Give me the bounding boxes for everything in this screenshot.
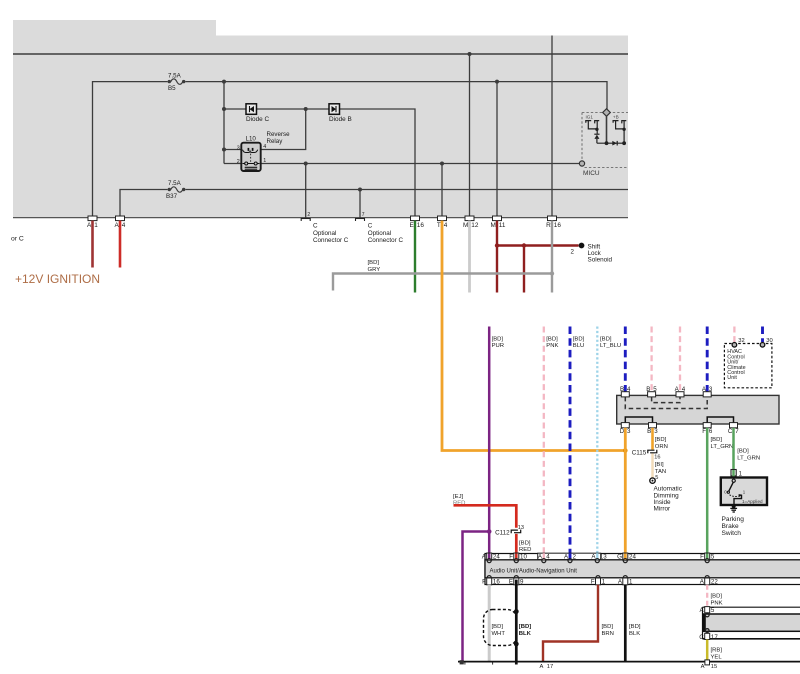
svg-text:1: 1 — [263, 158, 266, 164]
connector C112 — [511, 530, 521, 534]
svg-text:7.5A: 7.5A — [168, 72, 182, 79]
svg-text:6: 6 — [709, 428, 713, 435]
audio unit outer box — [485, 554, 800, 585]
svg-text:24: 24 — [493, 554, 500, 561]
pin F5 — [700, 553, 715, 561]
svg-text:Switch: Switch — [722, 530, 742, 537]
svg-text:15: 15 — [711, 664, 717, 670]
wire purple branch to bottom unit — [463, 532, 490, 662]
MICU internal +B driver — [613, 114, 626, 143]
svg-text:[BD]: [BD] — [711, 437, 723, 443]
svg-text:Audio Unit/Audio-Navigation Un: Audio Unit/Audio-Navigation Unit — [490, 569, 578, 575]
svg-text:F: F — [509, 554, 513, 561]
svg-text:5: 5 — [711, 554, 715, 561]
wire blue HVAC 30 — [761, 327, 764, 343]
svg-text:+12V IGNITION: +12V IGNITION — [15, 272, 100, 286]
svg-text:7: 7 — [362, 212, 365, 218]
svg-text:B: B — [646, 386, 650, 393]
wire M12 drop — [469, 54, 471, 218]
pin B4 — [620, 386, 631, 397]
svg-text:Connector C: Connector C — [368, 237, 404, 244]
svg-text:YEL: YEL — [711, 655, 723, 661]
svg-text:C112: C112 — [495, 529, 510, 536]
svg-text:F: F — [482, 579, 486, 586]
bottom unit pins — [460, 660, 718, 670]
node orange junction D3 — [623, 448, 628, 453]
svg-text:2: 2 — [573, 554, 577, 561]
svg-text:4: 4 — [546, 554, 550, 561]
svg-text:ORN: ORN — [655, 444, 668, 450]
svg-text:[BD]: [BD] — [519, 624, 531, 630]
svg-text:3: 3 — [654, 428, 658, 435]
pin C7 — [728, 423, 739, 435]
wire pink A22 — [706, 585, 708, 607]
node shield bottom — [514, 642, 519, 647]
pin A24 — [482, 553, 501, 561]
wire green F6 to F5 — [706, 428, 709, 554]
svg-text:[EJ]: [EJ] — [453, 494, 464, 500]
svg-text:12: 12 — [471, 222, 479, 229]
svg-text:LT_BLU: LT_BLU — [600, 343, 621, 349]
wire red A1 — [91, 221, 94, 268]
node GRY junction — [550, 271, 554, 275]
wire top bus — [13, 53, 628, 55]
svg-text:1: 1 — [94, 222, 98, 229]
svg-text:16: 16 — [654, 455, 660, 461]
pin A5 — [700, 607, 715, 615]
svg-text:GRY: GRY — [368, 267, 381, 273]
svg-text:[BD]: [BD] — [737, 449, 749, 455]
wire to optional connector 7 — [359, 190, 361, 219]
wire R16 drop — [551, 36, 553, 218]
pin A13 audio — [591, 554, 607, 561]
fuse B37 — [168, 187, 186, 192]
svg-text:E: E — [410, 222, 414, 229]
node relay pin3 — [222, 148, 226, 152]
wire relay pin4 riser — [262, 109, 306, 150]
node mirror ring terminal — [650, 478, 655, 483]
jumper dashed B5-A4 — [652, 397, 680, 403]
wire tan to mirror — [651, 454, 654, 478]
svg-text:Connector C: Connector C — [313, 237, 349, 244]
ground parking brake — [730, 504, 737, 512]
pin E9 — [509, 578, 524, 586]
svg-text:PUR: PUR — [492, 343, 504, 349]
pin M12 — [463, 216, 479, 229]
link F6-C7 — [707, 417, 733, 424]
svg-text:G: G — [617, 554, 622, 561]
pin F1 — [591, 578, 606, 586]
wire pink A4 — [679, 327, 681, 393]
svg-text:M: M — [490, 222, 495, 229]
wire orange B3 — [651, 428, 654, 450]
svg-text:32: 32 — [738, 338, 744, 344]
audio top pin circles — [487, 559, 709, 563]
relay box unit (option jumper block) — [617, 395, 779, 424]
link D3-B3 — [625, 417, 652, 424]
jumper dashed B4-A3 — [625, 397, 707, 409]
svg-text:C: C — [368, 223, 373, 230]
svg-text:24: 24 — [629, 554, 636, 561]
wire to pin T4 — [441, 164, 443, 218]
svg-text:1: 1 — [602, 579, 606, 586]
svg-text:Unit: Unit — [727, 375, 737, 381]
svg-text:[BI]: [BI] — [655, 462, 664, 468]
svg-text:M: M — [463, 222, 468, 229]
wire darkred M11 — [496, 221, 498, 293]
svg-text:B37: B37 — [166, 193, 178, 200]
svg-text:+B: +B — [613, 114, 619, 119]
node shift lock branch — [522, 243, 526, 247]
pin A4 upper — [675, 386, 686, 397]
svg-text:BRN: BRN — [602, 631, 614, 637]
HVAC control unit dashed box — [724, 338, 772, 388]
wire green C7 to parking brake — [732, 428, 735, 470]
wire orange D3 to G24 — [624, 428, 627, 554]
bottom unit edge — [458, 661, 800, 663]
audio bottom pin circles — [487, 576, 709, 580]
svg-text:4: 4 — [444, 222, 448, 229]
svg-text:A: A — [701, 664, 705, 670]
svg-text:A: A — [540, 664, 544, 670]
pin A1 audio — [618, 578, 633, 586]
fuse B5 — [168, 79, 186, 84]
svg-text:5: 5 — [711, 607, 715, 614]
wire to optional connector 2 — [305, 164, 307, 219]
wire brown F1 — [543, 585, 598, 662]
wire B5 line to MICU diamond — [186, 82, 608, 109]
svg-text:[BD]: [BD] — [655, 437, 667, 443]
svg-text:B: B — [620, 386, 624, 393]
pin F16 — [482, 578, 500, 586]
node pin1/optional connector 2 — [304, 162, 308, 166]
pin R16 — [546, 216, 561, 229]
svg-text:Reverse: Reverse — [267, 131, 291, 138]
pin A1 — [87, 216, 98, 229]
svg-text:[BD]: [BD] — [546, 337, 558, 343]
svg-text:2: 2 — [571, 249, 575, 256]
svg-text:F: F — [591, 579, 595, 586]
pin T4 — [437, 216, 448, 229]
node B5/x224 — [222, 80, 226, 84]
wire darkred branch drop — [523, 246, 525, 293]
optional connector 7 terminal fork — [355, 219, 365, 222]
diode C — [246, 104, 269, 123]
MICU dashed box — [582, 113, 628, 178]
wire green E16 — [414, 221, 416, 293]
relay L10 reverse relay — [237, 131, 290, 171]
wire purple PUR — [488, 327, 491, 554]
svg-text:22: 22 — [711, 579, 718, 586]
svg-text:3: 3 — [627, 428, 631, 435]
pin B3 — [647, 423, 658, 435]
svg-text:16: 16 — [417, 222, 425, 229]
svg-text:4: 4 — [122, 222, 126, 229]
wire yellow C17 — [706, 640, 709, 662]
pin F10 — [509, 553, 527, 561]
pin A2 audio — [564, 554, 576, 561]
node pin1/T4 — [440, 162, 444, 166]
svg-text:[BD]: [BD] — [492, 624, 504, 630]
pin A22 — [700, 578, 719, 586]
right sub unit outer lines — [703, 606, 800, 608]
svg-text:2: 2 — [307, 212, 310, 218]
diode B — [329, 104, 352, 123]
pin 1 parking brake switch — [731, 470, 736, 476]
svg-text:Mirror: Mirror — [654, 506, 672, 513]
svg-text:30: 30 — [766, 338, 772, 344]
pin A4 audio — [538, 554, 550, 561]
parking brake switch — [721, 478, 767, 506]
svg-text:Diode C: Diode C — [246, 116, 269, 123]
wire white M12 — [468, 221, 471, 293]
svg-text:Solenoid: Solenoid — [588, 257, 613, 264]
svg-text:LT_GRN: LT_GRN — [711, 444, 734, 450]
svg-text:Parking: Parking — [722, 516, 745, 523]
svg-text:[BD]: [BD] — [519, 541, 531, 547]
wire pink PNK — [543, 327, 545, 554]
svg-text:RED: RED — [519, 547, 531, 553]
pin A4 — [115, 216, 126, 229]
wire gray GRY branch — [333, 274, 552, 291]
node purple branch — [487, 529, 492, 534]
svg-text:[BD]: [BD] — [602, 624, 614, 630]
node B5/M11 — [495, 80, 499, 84]
svg-text:[BD]: [BD] — [629, 624, 641, 630]
svg-text:[BD]: [BD] — [573, 337, 585, 343]
svg-text:PNK: PNK — [546, 343, 558, 349]
svg-text:PNK: PNK — [711, 601, 723, 607]
svg-text:BLK: BLK — [629, 631, 640, 637]
svg-text:C: C — [728, 428, 733, 435]
svg-text:BLK: BLK — [519, 631, 532, 637]
pin C17 — [699, 633, 718, 641]
svg-text:F: F — [702, 428, 706, 435]
wire diamond to MICU bus — [606, 116, 608, 143]
svg-text:[RB]: [RB] — [711, 648, 723, 654]
MICU internal bus with diode — [597, 141, 626, 146]
wire fuse B37 feed pin A4 — [120, 190, 168, 218]
wire light blue LT_BLU — [596, 327, 598, 554]
svg-text:Diode B: Diode B — [329, 116, 352, 123]
node MICU edge connector circle — [579, 161, 584, 166]
svg-text:7: 7 — [735, 428, 739, 435]
wire pink HVAC 32 — [733, 327, 735, 343]
pin F6 — [702, 423, 713, 435]
svg-text:L10: L10 — [246, 135, 257, 142]
wire blue B4 — [624, 327, 627, 393]
wire black E9 — [515, 580, 518, 665]
svg-text:T: T — [437, 222, 441, 229]
svg-text:WHT: WHT — [492, 631, 506, 637]
svg-text:C: C — [313, 223, 318, 230]
wire blue BLU — [569, 327, 572, 554]
right sub unit gray bar — [704, 614, 800, 631]
wire white F16 — [488, 585, 491, 662]
svg-text:[BD]: [BD] — [368, 260, 380, 266]
svg-text:F: F — [700, 554, 704, 561]
svg-text:C: C — [699, 634, 704, 641]
pin B5 — [646, 386, 657, 397]
svg-text:R: R — [546, 222, 551, 229]
svg-text:C115: C115 — [632, 449, 647, 456]
svg-text:16: 16 — [493, 579, 500, 586]
svg-text:3: 3 — [237, 145, 240, 151]
wire M11 drop — [496, 82, 498, 218]
wire diode B to pin E16 — [340, 109, 416, 218]
wire pink B5 — [650, 327, 652, 393]
svg-text:2: 2 — [237, 159, 240, 165]
svg-text:11: 11 — [499, 222, 506, 229]
svg-text:13: 13 — [518, 525, 524, 531]
svg-text:4: 4 — [627, 386, 631, 393]
shield dashed loop — [484, 610, 517, 646]
svg-text:5: 5 — [653, 386, 657, 393]
svg-text:1=Applied: 1=Applied — [742, 499, 763, 504]
svg-text:Relay: Relay — [267, 138, 284, 145]
wire relay pin2 — [224, 163, 242, 165]
svg-text:BLU: BLU — [573, 343, 584, 349]
node diode C branch — [222, 107, 226, 111]
wire relay pin3 — [224, 149, 242, 151]
svg-text:3: 3 — [709, 386, 713, 393]
wire stubs through group rect — [543, 553, 545, 560]
svg-text:10: 10 — [520, 554, 527, 561]
node shield top — [514, 609, 519, 614]
svg-text:9: 9 — [520, 579, 524, 586]
svg-text:[BD]: [BD] — [711, 594, 723, 600]
svg-text:17: 17 — [547, 664, 553, 670]
svg-text:Brake: Brake — [722, 523, 740, 530]
node MICU diamond connector — [603, 109, 611, 117]
wire gray R16 — [551, 221, 553, 293]
node shift lock solenoid terminal — [579, 243, 585, 249]
wire relay pin1 to MICU — [262, 163, 580, 165]
svg-text:or C: or C — [11, 236, 24, 243]
node B37/optional connector 7 — [358, 188, 362, 192]
svg-text:17: 17 — [711, 634, 718, 641]
sub unit pin circles — [705, 613, 709, 617]
pin A3 — [702, 386, 713, 397]
wire darkred shift lock feed — [497, 244, 579, 246]
svg-text:D: D — [620, 428, 625, 435]
pin G24 — [617, 553, 636, 561]
wire vertical x224 to relay pins 3,2 — [223, 82, 225, 164]
wire blue A3 — [706, 327, 709, 393]
svg-text:7.5A: 7.5A — [168, 180, 182, 187]
svg-text:4: 4 — [682, 386, 686, 393]
pin E16 — [410, 216, 425, 229]
wire red A4 — [119, 221, 122, 268]
wire fuse B5 feed to pin A1 — [93, 82, 168, 218]
wire diode row — [224, 108, 246, 110]
svg-text:4: 4 — [263, 144, 266, 150]
svg-text:[BD]: [BD] — [600, 337, 612, 343]
MICU internal IG1 driver — [586, 114, 600, 143]
svg-text:B5: B5 — [168, 85, 176, 92]
pin M11 — [490, 216, 505, 229]
svg-text:MICU: MICU — [583, 170, 600, 177]
fuse box shaded area — [13, 20, 628, 218]
svg-text:E: E — [509, 579, 513, 586]
node top bus / M12 — [468, 52, 472, 56]
svg-text:B: B — [647, 428, 651, 435]
node M11 branch — [495, 243, 499, 247]
pin group rect A4 A2 A13 — [538, 553, 601, 559]
node diode C / relay pin4 — [304, 107, 308, 111]
pin D3 — [620, 423, 631, 435]
audio unit gray bar — [485, 560, 800, 578]
wire orange T4 run — [442, 221, 625, 451]
wire black A1 — [624, 585, 627, 662]
svg-text:LT_GRN: LT_GRN — [737, 456, 760, 462]
wire B37 line — [186, 189, 629, 191]
connector C115 — [648, 450, 657, 454]
optional connector 2 terminal fork — [301, 219, 311, 222]
svg-text:13: 13 — [600, 554, 607, 561]
svg-text:16: 16 — [554, 222, 562, 229]
svg-text:IG1: IG1 — [586, 114, 594, 119]
svg-text:A: A — [700, 607, 705, 614]
svg-text:[BD]: [BD] — [492, 337, 504, 343]
svg-text:1: 1 — [629, 579, 633, 586]
